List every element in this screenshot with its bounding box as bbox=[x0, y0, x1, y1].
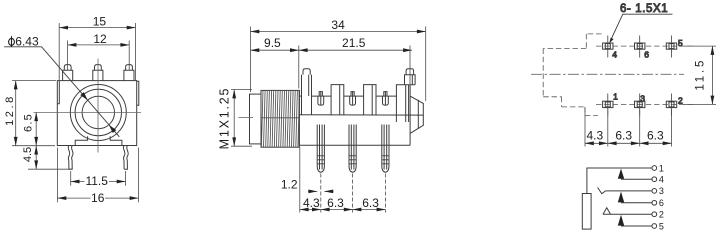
dim 6.3 b bbox=[353, 209, 386, 211]
svg-text:1: 1 bbox=[659, 163, 664, 173]
svg-text:16: 16 bbox=[91, 191, 105, 205]
wire terminal 2 bbox=[603, 213, 652, 215]
contact stub 1 bbox=[318, 92, 324, 106]
pads bottom dims extensions bbox=[585, 108, 672, 147]
wire from plug to terminal 1 bbox=[587, 168, 652, 194]
svg-text:5: 5 bbox=[678, 38, 683, 48]
dim 12 bbox=[68, 41, 130, 71]
svg-text:6.5: 6.5 bbox=[23, 113, 35, 132]
dim 34 bbox=[251, 27, 426, 102]
right wedge tip bbox=[410, 85, 423, 146]
dim 1.2 arrows bbox=[308, 190, 317, 192]
barrel cap bbox=[250, 94, 262, 144]
contact arrow 2-5 bbox=[618, 215, 624, 226]
text 16 bbox=[91, 193, 106, 203]
pad 6 bbox=[635, 36, 650, 60]
centerline horizontal bbox=[34, 112, 142, 114]
dim 15 bbox=[59, 23, 135, 80]
dim 11.5 bottom bbox=[71, 171, 126, 186]
leg left bbox=[68, 146, 70, 170]
svg-text:4.5: 4.5 bbox=[22, 147, 34, 162]
spring symbol line 2 bbox=[603, 208, 611, 215]
svg-text:12.8: 12.8 bbox=[4, 94, 16, 126]
front lug (side) bbox=[302, 69, 312, 115]
svg-text:12: 12 bbox=[93, 32, 107, 46]
pin 1 bbox=[317, 125, 324, 173]
svg-text:15: 15 bbox=[93, 14, 107, 28]
svg-text:2: 2 bbox=[659, 210, 664, 220]
svg-text:4.3: 4.3 bbox=[303, 196, 320, 210]
lug left bbox=[63, 65, 73, 81]
wire terminal 3 bbox=[606, 190, 652, 192]
pad 4 bbox=[603, 36, 618, 60]
dim 4.5 bbox=[28, 168, 72, 170]
terminal circle 1 bbox=[652, 166, 657, 171]
dim 6.3 a bbox=[321, 209, 353, 211]
dim 11.5 pads bbox=[683, 46, 716, 104]
svg-text:3: 3 bbox=[640, 93, 645, 103]
svg-text:34: 34 bbox=[331, 18, 345, 32]
pad 5 bbox=[666, 36, 683, 58]
dim M1x1.25 bbox=[231, 90, 252, 147]
text phi6.43 bbox=[9, 36, 15, 46]
pin 2 bbox=[349, 125, 356, 173]
svg-text:11.5: 11.5 bbox=[695, 58, 707, 91]
lug right bbox=[124, 65, 134, 81]
svg-text:3: 3 bbox=[659, 186, 664, 196]
body front face bbox=[57, 81, 136, 146]
terminal circle 5 bbox=[652, 224, 657, 229]
dim 9.5 bbox=[298, 46, 300, 89]
svg-text:6.3: 6.3 bbox=[647, 129, 664, 143]
svg-text:6.3: 6.3 bbox=[615, 129, 632, 143]
svg-text:1.2: 1.2 bbox=[281, 178, 298, 192]
svg-text:4: 4 bbox=[659, 175, 664, 185]
body top edge segments bbox=[312, 95, 397, 97]
right outer flange line bbox=[137, 81, 139, 105]
jack outer circle bbox=[70, 85, 126, 141]
svg-text:4: 4 bbox=[612, 49, 617, 59]
leader 6-1.5x1 bbox=[611, 14, 673, 39]
svg-text:21.5: 21.5 bbox=[342, 36, 366, 50]
row centerline bottom bbox=[596, 103, 694, 105]
pedestal under circle bbox=[75, 136, 122, 145]
svg-text:5: 5 bbox=[659, 221, 664, 231]
terminal circle 6 bbox=[652, 200, 657, 205]
dim 6.3 pads b bbox=[640, 142, 672, 144]
dim 12.8 bbox=[12, 81, 56, 146]
svg-text:6.3: 6.3 bbox=[327, 196, 344, 210]
right dome lug bbox=[405, 69, 416, 85]
pad 3 bbox=[635, 93, 646, 115]
contact arrow 3-6 bbox=[618, 192, 624, 203]
centerline vertical bbox=[97, 59, 99, 153]
contact stub 3 bbox=[383, 92, 389, 106]
text 11.5 bbox=[85, 176, 110, 186]
thread lines bbox=[261, 90, 300, 147]
svg-text:6: 6 bbox=[659, 198, 664, 208]
spring symbol line 3 bbox=[598, 188, 606, 194]
contact arrow 1-4 bbox=[618, 169, 624, 179]
jack middle circle bbox=[75, 89, 121, 135]
terminal circle 2 bbox=[652, 212, 657, 217]
pad 2 bbox=[666, 94, 683, 116]
svg-text:4.3: 4.3 bbox=[586, 129, 603, 143]
dim 16 bbox=[58, 148, 139, 203]
pin 3 bbox=[382, 125, 389, 173]
dim 6.5 bbox=[35, 112, 37, 145]
right end block bbox=[396, 85, 415, 122]
pad 1 bbox=[603, 91, 619, 115]
phi6.43 arrowheads bbox=[80, 92, 88, 100]
svg-text:9.5: 9.5 bbox=[264, 36, 281, 50]
svg-text:6- 1.5X1: 6- 1.5X1 bbox=[620, 3, 668, 15]
row centerline top bbox=[596, 45, 694, 47]
svg-text:1: 1 bbox=[613, 91, 618, 101]
svg-text:6: 6 bbox=[644, 49, 649, 59]
terminal circle 3 bbox=[652, 189, 657, 194]
barrel centerline bbox=[239, 117, 254, 119]
svg-text:11.5: 11.5 bbox=[85, 174, 108, 188]
dim 4.3 pads bbox=[585, 142, 608, 144]
svg-text:6.3: 6.3 bbox=[362, 196, 379, 210]
left inner flange line bbox=[58, 81, 60, 104]
tab B bbox=[331, 85, 344, 115]
plug sleeve rectangle bbox=[582, 194, 591, 230]
bottom dims extension lines bbox=[299, 147, 301, 213]
leg right bbox=[123, 146, 125, 170]
dim 6.3 pads a bbox=[608, 142, 640, 144]
tab C bbox=[364, 85, 376, 115]
lug middle bbox=[93, 65, 103, 81]
dashed body outline bbox=[543, 34, 601, 116]
wire terminal 6 bbox=[621, 202, 652, 204]
jack inner circle (hole) bbox=[82, 96, 114, 128]
internal horizontal line bbox=[299, 114, 423, 116]
leader phi6.43 bbox=[4, 47, 119, 137]
dim 21.5 bbox=[409, 46, 411, 85]
body side outline bbox=[299, 90, 410, 145]
wire terminal 4 bbox=[621, 178, 652, 180]
svg-text:6.43: 6.43 bbox=[15, 35, 39, 49]
dim 4.3 bbox=[300, 209, 321, 211]
svg-text:2: 2 bbox=[678, 96, 683, 106]
terminal circle 4 bbox=[652, 177, 657, 182]
wire terminal 5 bbox=[621, 225, 652, 227]
axis centerline bbox=[531, 73, 684, 75]
svg-text:M1X1.25: M1X1.25 bbox=[218, 87, 232, 150]
thread outline bbox=[261, 90, 299, 147]
contact stub 2 bbox=[350, 92, 356, 106]
